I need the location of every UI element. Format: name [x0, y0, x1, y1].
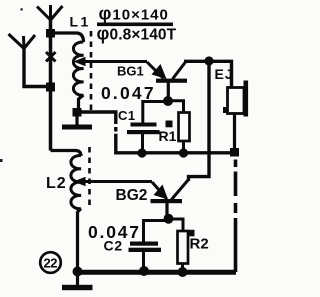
svg-text:22: 22: [44, 256, 58, 271]
L1 tap arrow wire to BG1 emitter: [84, 60, 147, 63]
scan artifact marks: [0, 159, 3, 162]
inductor L2 coil: [71, 155, 81, 208]
wire R2 bottom lead: [181, 264, 184, 271]
wire R1 bottom lead: [182, 141, 185, 153]
figure number circle 22: [40, 252, 61, 273]
wire L2 bottom down to bottom rail: [78, 209, 82, 271]
node junction dot top (antenna to L1): [46, 29, 55, 38]
svg-text:0.047: 0.047: [101, 83, 156, 103]
wire BG1 collector to top node: [184, 61, 232, 88]
node R1 bottom dot: [179, 148, 188, 157]
wire ground junction right then down to stage1 bottom rail: [81, 112, 233, 153]
svg-text:EJ: EJ: [215, 66, 234, 82]
transistor BG2 collector lead: [172, 180, 189, 200]
wire ANT1 mast down and right to mast junction: [24, 47, 49, 87]
svg-text:φ10×140: φ10×140: [99, 4, 169, 24]
svg-text:C2: C2: [104, 238, 124, 254]
node BG2 base dot: [164, 214, 174, 224]
svg-text:φ0.8×140T: φ0.8×140T: [97, 23, 177, 43]
tap arrowhead: [74, 57, 86, 66]
BG2 emitter arrowhead: [154, 185, 169, 200]
node L2 bottom dot: [73, 267, 83, 277]
antenna ANT1 (left): [9, 34, 36, 49]
node R2 bottom dot: [178, 267, 188, 277]
wire top node down to BG2 collector: [189, 63, 210, 181]
transistor BG1 base bar: [156, 79, 187, 83]
fraction bar: [97, 23, 173, 27]
BG1 emitter arrowhead: [152, 64, 167, 79]
X break mark on mast: [46, 52, 56, 62]
wire C1 bottom lead: [141, 134, 144, 153]
node junction square (EJ bottom / rail): [230, 148, 239, 157]
svg-text:R2: R2: [190, 236, 209, 253]
transistor BG1 collector lead: [173, 62, 186, 79]
R1 bullet mark: [166, 121, 173, 128]
transistor BG2 base bar: [151, 199, 183, 203]
wire base node left to C2: [144, 221, 168, 243]
scan artifact fade on corner wire: [114, 124, 118, 127]
node C1 bottom dot: [137, 148, 146, 157]
node collector dot: [204, 56, 213, 65]
dashed ferrite rod line (L2): [88, 147, 91, 210]
capacitor C1 plates: [131, 123, 157, 127]
wire base node right to R2: [170, 219, 183, 232]
ground G1: [75, 116, 78, 126]
wire antenna node to L1 top: [53, 33, 84, 42]
svg-text:R1: R1: [159, 128, 177, 144]
wire bottom rail: [77, 270, 236, 275]
wire BG2 base lead down: [165, 203, 168, 215]
EJ right bar: [244, 81, 249, 117]
resistor R1 body: [179, 113, 190, 142]
wire EJ bottom lead: [233, 114, 236, 150]
tap arrowhead L2: [74, 177, 86, 186]
wire base node right to R1: [169, 101, 184, 113]
svg-text:L2: L2: [46, 175, 67, 192]
wire right side rail (broken scan dashes): [234, 160, 238, 273]
node junction dot (ANT1 joins mast): [46, 83, 55, 92]
ground G2: [76, 274, 79, 286]
node junction square (L1 bottom / ground): [73, 108, 82, 117]
inductor L1 coil: [73, 42, 83, 95]
earphone EJ body: [228, 88, 245, 114]
transistor BG1 emitter lead: [147, 62, 164, 79]
transistor BG2 emitter lead: [152, 182, 167, 199]
svg-text:BG2: BG2: [116, 187, 148, 204]
wire main bus corner to L2 top: [51, 151, 82, 157]
antenna ANT2 (right): [37, 5, 63, 20]
svg-text:BG1: BG1: [117, 64, 144, 79]
node BG1 base dot: [163, 96, 173, 106]
EJ left terminal bump: [223, 107, 229, 113]
L2 tap arrow wire to BG2 emitter: [84, 180, 152, 183]
wire base node left to C1: [143, 102, 167, 124]
wire C2 bottom lead: [142, 252, 145, 269]
capacitor C2 plates: [130, 242, 158, 246]
svg-text:L1: L1: [70, 14, 91, 30]
svg-text:C1: C1: [118, 108, 136, 123]
node C2 bottom dot: [139, 266, 149, 276]
R2 bullet mark: [188, 230, 195, 237]
resistor R2 body: [178, 231, 189, 264]
dashed ferrite rod line (L1): [90, 31, 93, 111]
antenna ANT2 mast wire: [49, 18, 53, 151]
wire L1 bottom to ground junction: [79, 95, 84, 109]
wire BG1 base lead down: [167, 82, 170, 98]
